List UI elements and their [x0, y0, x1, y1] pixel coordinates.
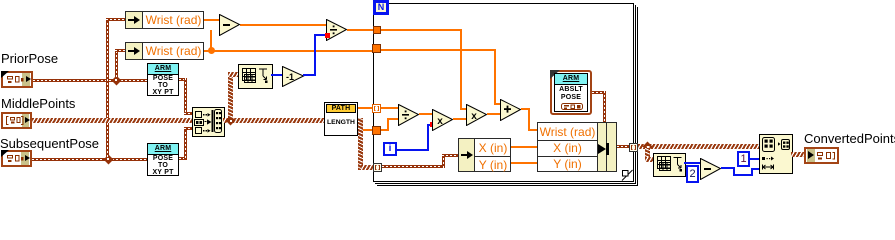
for loop main frame — [373, 3, 634, 182]
label SubsequentPose — [0, 136, 99, 151]
tunnel3 indexing [] orange — [372, 104, 381, 113]
wire SubsequentPose riser up to Wrist unbundle 1 — [106, 19, 109, 159]
for loop count terminal N — [373, 0, 389, 15]
tunnel5 indexing [] array of poses — [373, 163, 382, 172]
wire divide1 output into loop tunnel1 — [347, 29, 373, 31]
wire Wrist1 minus Wrist2 subtract output to divide1 — [240, 24, 326, 26]
control terminal PriorPose — [1, 71, 33, 88]
function subtract 1 — [219, 14, 241, 36]
label PriorPose — [1, 51, 58, 66]
wire unbundle X to bundle X — [511, 146, 537, 148]
function Array Subset — [759, 134, 793, 174]
wire MiddlePoints array to Build Array (hatched) — [32, 118, 192, 123]
for loop corner fold — [620, 168, 634, 182]
subVI PATH LENGTH — [324, 102, 358, 136]
function decrement -1 — [282, 66, 305, 87]
function multiply 2 — [466, 104, 488, 126]
function divide 1 — [326, 19, 348, 41]
wire ARM2 output to Build Array input3 — [179, 157, 187, 160]
wire constant 1 to Array Subset index input (blue) — [750, 158, 759, 160]
constant 2 — [686, 165, 699, 183]
function Array Size 2 — [653, 153, 686, 177]
tunnel2 solid orange (base angle) — [372, 44, 381, 53]
function multiply 1 — [432, 109, 454, 131]
tunnel4 solid orange (total length) — [372, 126, 381, 135]
function Array Size 1 — [238, 64, 273, 89]
wire decrement to divide1 (blue) — [303, 74, 316, 76]
constant 1 — [737, 151, 750, 167]
indicator terminal ConvertedPoints — [804, 147, 839, 164]
wire SubsequentPose to ARM2 (brown cluster) — [32, 158, 147, 161]
wire Wrist1 output to subtract — [204, 19, 219, 21]
wire tunnel3 to divide2 top input — [381, 107, 398, 109]
wire subtract3 output to Array Subset length input (blue) — [721, 167, 735, 169]
label MiddlePoints — [1, 96, 75, 111]
wire multiply1 to multiply2 — [453, 118, 466, 120]
for loop stacked frame copy 2 — [375, 5, 636, 184]
wire Array Size 1 to decrement (blue) — [271, 74, 283, 76]
wire ARM1 output to Build Array input1 — [179, 78, 187, 81]
unbundle Wrist (rad) 1 — [125, 11, 204, 29]
function add — [500, 99, 522, 121]
wire add output to bundle Wrist row — [521, 108, 530, 110]
wire Array Subset output to ConvertedPoints (hatched) — [791, 152, 804, 157]
control terminal PriorPose corner fold — [1, 71, 9, 78]
wire PriorPose to ARM1 and junction (brown cluster) — [33, 79, 147, 82]
wire junction diamond right of loop — [643, 142, 653, 152]
cluster constant ABSLT POSE — [550, 70, 592, 115]
control terminal SubsequentPose — [1, 150, 32, 167]
coercion dot on multiply1 — [430, 122, 435, 127]
unbundle Wrist (rad) 2 — [125, 42, 204, 60]
wire bundle output to tunnel6 — [617, 145, 629, 148]
wire Wrist2 output to loop tunnel — [204, 50, 373, 52]
wire divide2 to multiply1 — [419, 113, 432, 115]
wire i terminal to multiply1 coercion (blue) — [397, 149, 428, 151]
control terminal MiddlePoints — [1, 112, 32, 129]
svg-text:-1: -1 — [286, 72, 294, 82]
junction white dots — [115, 79, 117, 81]
function subtract 3 — [700, 158, 722, 180]
build array node — [192, 107, 225, 137]
svg-text:x: x — [437, 116, 443, 127]
for loop iteration terminal i — [383, 142, 397, 156]
function divide 2 — [398, 104, 420, 126]
wire branch up to subtract lower input — [210, 30, 212, 50]
wire tunnel2 to add top input — [381, 49, 496, 51]
wire ABSLT POSE to bundle middle input — [592, 91, 606, 94]
wire junction diamond on SubsequentPose wire — [103, 154, 113, 164]
wire tunnel5 element to unbundle XY — [382, 165, 444, 168]
wire build array output to PATH LENGTH (hatched array) — [223, 118, 324, 123]
wire Array Size 2 to subtract3 (blue) — [684, 162, 700, 164]
wire array branch up to Array Size 1 — [228, 73, 233, 118]
wire tunnel4 to divide2 bottom input — [381, 129, 389, 131]
wire junction diamond on array wire — [226, 116, 236, 126]
tunnel1 solid orange (increment) — [373, 26, 381, 34]
bundle by name Wrist X Y — [537, 122, 617, 172]
label ConvertedPoints — [804, 131, 895, 146]
wire multiply2 to add — [487, 113, 500, 115]
subVI ARM POSE TO XY PT 1 — [147, 63, 179, 96]
subVI ARM POSE TO XY PT 2 — [147, 143, 179, 176]
wire tunnel1 to multiply2 top input — [381, 29, 462, 31]
wire tunnel6 out to junction (hatched) — [638, 144, 759, 149]
wire unbundle Y to bundle Y — [511, 162, 537, 164]
svg-text:x: x — [471, 111, 477, 122]
wire PATH LENGTH array passthrough down to lower tunnel5 — [358, 118, 363, 170]
for loop stacked frame copy 3 — [377, 7, 638, 186]
unbundle by name X Y — [458, 138, 511, 172]
control terminal SubsequentPose corner fold — [1, 150, 9, 157]
wire junction dot on Wrist2 output — [208, 47, 215, 54]
wire PATH LENGTH total output to tunnel4 — [358, 129, 374, 131]
wire junction diamond on PriorPose wire — [111, 75, 121, 85]
wire array branch down to Array Size 2 — [645, 146, 650, 162]
wire PriorPose branch up to Wrist unbundle 2 — [115, 51, 118, 80]
tunnel6 indexing [] output right — [629, 143, 638, 152]
wire PATH LENGTH length-array output to tunnel3 — [358, 107, 374, 109]
coercion dot on divide 1 — [325, 33, 330, 38]
